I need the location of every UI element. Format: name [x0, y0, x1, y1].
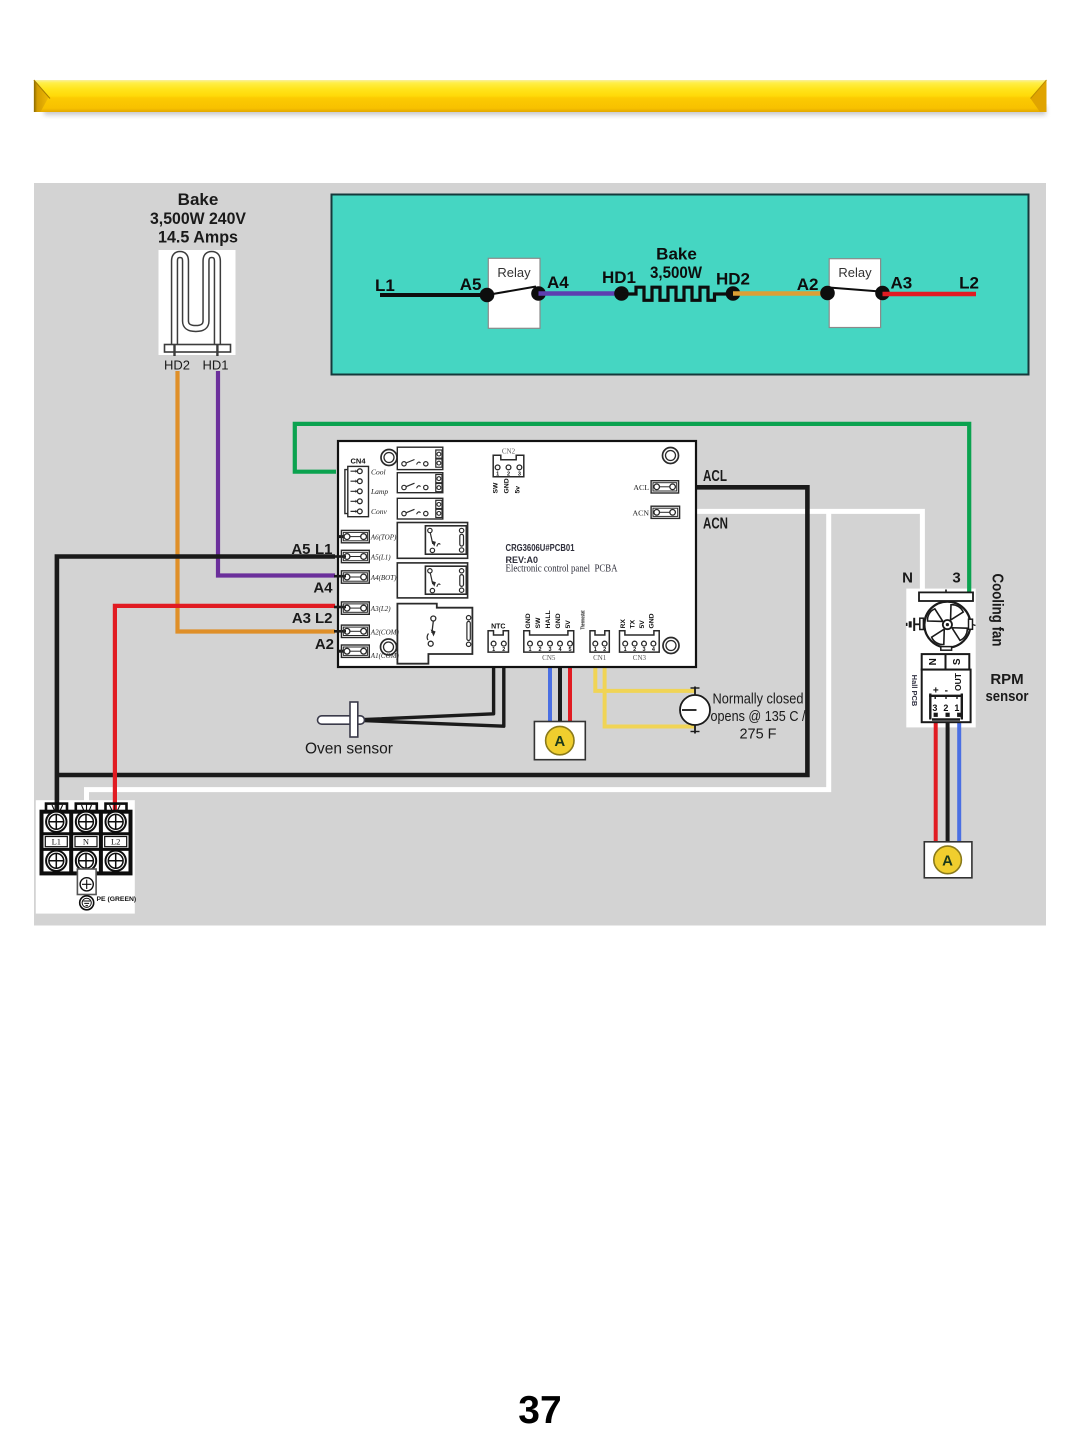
- svg-text:A5: A5: [291, 541, 310, 558]
- relay 1 box: [488, 258, 540, 328]
- svg-text:Bake: Bake: [178, 190, 219, 209]
- wire black L1: A5(L1) to terminal L1: [57, 557, 335, 813]
- svg-text:RPM: RPM: [990, 671, 1023, 688]
- svg-text:HD1: HD1: [202, 358, 228, 373]
- svg-text:1: 1: [594, 647, 597, 653]
- svg-text:NTC: NTC: [491, 624, 505, 631]
- wire yellow thermostat lower: [605, 652, 694, 726]
- svg-text:A3(L2): A3(L2): [370, 605, 392, 613]
- svg-text:3: 3: [642, 647, 645, 653]
- ammeter A1 box: [534, 722, 585, 760]
- terminal labels L1 N L2: [45, 837, 126, 847]
- wire A4 to HD1 (blue-violet): [539, 291, 622, 296]
- cooling fan white background: [906, 589, 975, 728]
- svg-text:L2: L2: [111, 837, 120, 847]
- PE extension bracket: [77, 869, 96, 895]
- svg-text:CRG3606U#PCB01: CRG3606U#PCB01: [506, 543, 575, 554]
- svg-text:3: 3: [518, 472, 521, 478]
- fan blades: [925, 602, 970, 647]
- fan top bracket: [919, 592, 973, 601]
- svg-text:CN2: CN2: [502, 448, 516, 456]
- node A5: [480, 288, 495, 303]
- svg-text:HD2: HD2: [716, 270, 750, 289]
- node A4: [531, 286, 546, 301]
- svg-text:2: 2: [502, 647, 505, 653]
- svg-text:3: 3: [932, 703, 937, 713]
- svg-text:A: A: [554, 733, 565, 750]
- wire HD2 to A2 (orange): [733, 291, 828, 296]
- svg-text:3,500W: 3,500W: [650, 263, 703, 282]
- terminal top tabs: [46, 804, 127, 813]
- node A3: [875, 286, 890, 301]
- svg-text:1: 1: [624, 647, 627, 653]
- banner top-left miter line: [34, 80, 50, 99]
- svg-text:A2(COM): A2(COM): [370, 628, 400, 636]
- connector A3(L2): [334, 602, 369, 614]
- wire red A3(L2) to terminal L2: [115, 606, 335, 812]
- PE screw: [80, 878, 93, 891]
- wire blue CN5-HALL to ammeter: [548, 652, 552, 722]
- teal schematic panel: [332, 195, 1029, 375]
- connector CN2: [493, 455, 524, 476]
- wire green Cool: CN4 to cooling fan: [295, 424, 969, 593]
- wire crimp marks: [52, 805, 120, 811]
- fan left motor connector: [920, 618, 924, 629]
- terminal block white background: [36, 800, 135, 913]
- fan bottom tab: [941, 647, 952, 651]
- svg-text:GND: GND: [504, 478, 511, 493]
- svg-text:L2: L2: [315, 610, 333, 627]
- labels SW GND 5v (CN2): [493, 478, 522, 493]
- svg-text:HALL: HALL: [545, 610, 552, 628]
- svg-text:PE (GREEN): PE (GREEN): [97, 896, 137, 903]
- svg-text:A4(BOT): A4(BOT): [370, 574, 397, 582]
- wire NTC pin2 to oven sensor: [364, 652, 504, 726]
- svg-text:SW: SW: [493, 482, 500, 494]
- svg-text:2: 2: [538, 647, 541, 653]
- hall PCB box: [922, 670, 971, 723]
- svg-text:Relay: Relay: [838, 265, 872, 280]
- svg-text:5: 5: [568, 647, 571, 653]
- svg-text:A4: A4: [547, 273, 569, 292]
- wire yellow thermostat upper: [595, 652, 695, 691]
- mounting hole bottom-left: [381, 639, 397, 655]
- svg-text:1: 1: [954, 703, 959, 713]
- wire black hall pin2 to ammeter2: [946, 718, 950, 843]
- PE ground screw: [80, 896, 94, 910]
- svg-text:A3: A3: [292, 610, 311, 627]
- ammeter A2 symbol: [934, 846, 962, 874]
- svg-text:Hall PCB: Hall PCB: [910, 675, 919, 707]
- svg-text:5V: 5V: [639, 620, 646, 629]
- svg-text:Oven sensor: Oven sensor: [305, 741, 393, 758]
- svg-text:CN4: CN4: [350, 457, 366, 466]
- svg-text:2: 2: [507, 472, 510, 478]
- svg-text:ACL: ACL: [633, 483, 649, 492]
- wire blue hall pin1 to ammeter2: [957, 718, 961, 843]
- svg-text:HD1: HD1: [602, 268, 636, 287]
- connector A2(COM): [334, 625, 369, 637]
- connector A6(TOP): [338, 530, 369, 542]
- labels GND SW HALL GND 5V (CN5): [525, 610, 572, 628]
- bake heating element tube (outer stroke): [175, 255, 218, 350]
- svg-text:L1: L1: [315, 541, 333, 558]
- wire NTC pin1 to oven sensor: [364, 652, 494, 720]
- svg-text:Lamp: Lamp: [370, 487, 388, 496]
- svg-text:sensor: sensor: [986, 688, 1029, 705]
- terminal screws top row: [46, 812, 126, 832]
- relay 2 box: [829, 259, 880, 328]
- svg-text:3,500W 240V: 3,500W 240V: [150, 209, 247, 228]
- svg-text:Cool: Cool: [371, 467, 386, 476]
- svg-text:ACN: ACN: [703, 516, 728, 533]
- connector NTC: [488, 631, 508, 652]
- svg-text:CN5: CN5: [542, 654, 556, 662]
- svg-text:CN3: CN3: [633, 654, 647, 662]
- svg-text:Bake: Bake: [656, 245, 697, 264]
- banner right bevel: [1031, 80, 1047, 112]
- svg-text:ACL: ACL: [703, 468, 727, 485]
- svg-text:ACN: ACN: [633, 508, 650, 517]
- node HD2: [726, 286, 741, 301]
- svg-text:N: N: [83, 837, 89, 847]
- svg-text:Conv: Conv: [371, 507, 388, 516]
- svg-text:S: S: [952, 658, 963, 665]
- yellow banner bar: [34, 80, 1047, 112]
- hall connector pins 3 2 1: [932, 703, 959, 713]
- svg-text:Cooling fan: Cooling fan: [989, 574, 1006, 647]
- wire black L1 branch: terminal to ACL: [57, 487, 808, 775]
- svg-text:A3: A3: [891, 274, 913, 293]
- connector ACN: [651, 506, 680, 518]
- wire black CN5-GND to ammeter: [558, 652, 562, 722]
- svg-text:RX: RX: [620, 619, 627, 629]
- relay RL2 (lamp): [397, 473, 443, 493]
- mounting hole bottom-right: [663, 638, 679, 654]
- svg-text:SW: SW: [535, 617, 542, 629]
- connector ACL: [651, 481, 679, 493]
- svg-text:14.5 Amps: 14.5 Amps: [158, 228, 238, 247]
- terminal block body: [42, 812, 131, 874]
- banner left bevel: [34, 80, 49, 112]
- wire A3 to L2 (red): [883, 292, 977, 297]
- connector CN3: [620, 631, 660, 652]
- relay RL1 (cool): [397, 447, 443, 469]
- node A2: [820, 286, 835, 301]
- node HD1: [614, 286, 629, 301]
- connector CN4: [345, 466, 369, 516]
- wire red hall pin3 to ammeter2: [934, 718, 938, 843]
- control board U1 outline: [338, 441, 696, 667]
- fan hub: [943, 620, 952, 629]
- svg-text:3: 3: [952, 570, 960, 587]
- svg-text:Relay: Relay: [497, 265, 531, 280]
- labels RX TX 5V GND (CN3): [620, 613, 655, 628]
- wire orange HD2 to A2(COM): [178, 371, 336, 632]
- ammeter A2 box: [924, 842, 972, 878]
- svg-text:N: N: [902, 570, 913, 587]
- svg-text:OUT: OUT: [953, 672, 963, 691]
- gray diagram background: [34, 183, 1046, 926]
- wire white neutral: ACN to fan N: [680, 511, 923, 592]
- svg-text:3: 3: [548, 647, 551, 653]
- svg-text:Electronic control panel PCBA: Electronic control panel PCBA: [506, 564, 619, 575]
- relay K1 (top): [397, 523, 467, 559]
- svg-text:HD2: HD2: [164, 358, 190, 373]
- svg-text:A5(L1): A5(L1): [370, 554, 392, 562]
- thermostat TH1: [680, 687, 710, 734]
- wire white neutral branch to terminal N: [87, 511, 829, 810]
- fan right tab: [969, 619, 973, 629]
- fan motor body: [924, 602, 970, 648]
- svg-text:A2: A2: [797, 275, 819, 294]
- svg-text:GND: GND: [555, 613, 562, 628]
- svg-text:2: 2: [603, 647, 606, 653]
- connector A4(BOT): [334, 571, 369, 583]
- relay 2 blade: [829, 288, 880, 292]
- svg-text:1: 1: [492, 647, 495, 653]
- connector A5(L1): [334, 550, 369, 562]
- svg-text:5V: 5V: [565, 620, 572, 629]
- ammeter A1 symbol: [546, 726, 574, 754]
- svg-text:2: 2: [633, 647, 636, 653]
- svg-text:2: 2: [943, 703, 948, 713]
- connector CN1 thermostat: [590, 631, 609, 652]
- terminal screws bottom row: [46, 851, 126, 871]
- svg-text:N: N: [928, 658, 939, 665]
- oven sensor flange: [350, 702, 358, 737]
- element terminal stubs: [173, 344, 175, 356]
- svg-text:A2: A2: [315, 636, 334, 653]
- svg-text:L1: L1: [375, 276, 395, 295]
- svg-text:5v: 5v: [514, 486, 521, 494]
- svg-text:37: 37: [518, 1389, 561, 1432]
- svg-text:A6(TOP): A6(TOP): [370, 534, 397, 542]
- mounting hole top-right: [663, 448, 679, 464]
- wire red CN5-5V to ammeter: [568, 652, 572, 722]
- svg-text:A: A: [942, 853, 953, 870]
- svg-text:A5: A5: [460, 275, 482, 294]
- connector A1(COM): [338, 645, 369, 657]
- svg-text:275 F: 275 F: [739, 727, 776, 743]
- relay K3 (main): [397, 604, 472, 664]
- svg-text:CN1: CN1: [593, 654, 607, 662]
- wire L1 to A5 (black): [380, 293, 487, 297]
- magnet N/S box: [922, 654, 970, 670]
- mounting hole top-left: [381, 450, 397, 466]
- svg-text:A4: A4: [313, 580, 333, 597]
- svg-text:L1: L1: [52, 837, 61, 847]
- element mounting bracket: [165, 345, 231, 353]
- svg-text:opens @ 135 C /: opens @ 135 C /: [711, 709, 807, 725]
- bake heating element tube (inner white): [175, 255, 218, 350]
- wire purple HD1 to A4(BOT): [218, 371, 335, 576]
- bake element white box: [159, 250, 236, 355]
- svg-text:GND: GND: [648, 613, 655, 628]
- relay RL3 (conv): [397, 498, 443, 519]
- resistor element (bake): [622, 287, 734, 300]
- svg-text:1: 1: [496, 472, 499, 478]
- svg-text:L2: L2: [959, 274, 979, 293]
- relay K2 (bottom oven): [397, 563, 467, 598]
- oven sensor probe rod: [318, 716, 365, 724]
- relay 1 blade: [487, 287, 536, 296]
- banner shadow: [44, 106, 1046, 115]
- hall connector bracket: [930, 694, 962, 696]
- svg-text:TX: TX: [630, 619, 637, 628]
- connector CN5: [524, 631, 574, 652]
- svg-text:Thermostat: Thermostat: [581, 610, 587, 629]
- svg-text:A1(COM): A1(COM): [370, 652, 400, 660]
- svg-text:1: 1: [528, 647, 531, 653]
- svg-text:Normally closed: Normally closed: [713, 692, 804, 708]
- svg-text:GND: GND: [525, 613, 532, 628]
